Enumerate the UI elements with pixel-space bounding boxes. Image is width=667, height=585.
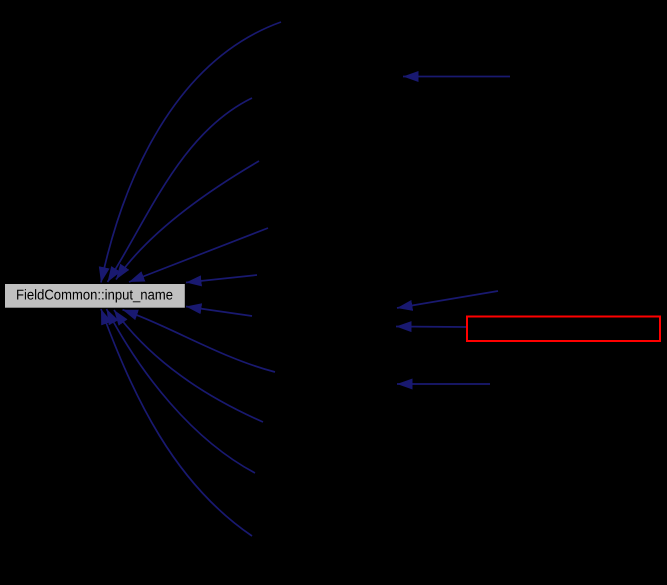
edge caller c4	[129, 228, 268, 282]
edge second-level m4	[397, 383, 490, 385]
node FieldCommon::input_name	[5, 284, 185, 308]
edge caller c3	[116, 161, 259, 280]
edge second-level m1	[403, 76, 510, 78]
edge caller c1	[101, 22, 281, 283]
edge second-level m2	[397, 291, 498, 308]
edge caller c2	[108, 98, 253, 282]
edge second-level m3	[396, 326, 466, 329]
edge caller r1	[186, 275, 257, 283]
edge caller b2	[114, 310, 263, 422]
edge caller b4	[101, 309, 252, 536]
node red-bordered caller (label hidden)	[467, 317, 660, 342]
edge caller r2	[186, 307, 252, 317]
edge caller b3	[107, 309, 256, 473]
edge caller b1	[123, 310, 276, 372]
